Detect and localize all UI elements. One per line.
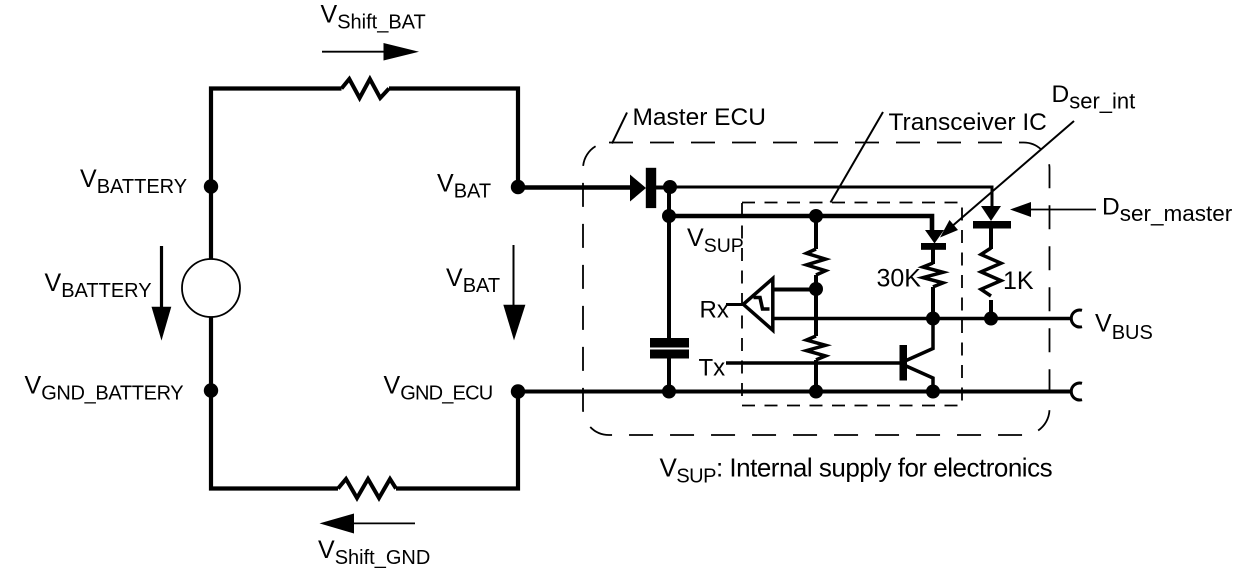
svg-text:Tx: Tx [699, 355, 726, 382]
battery source circle [182, 259, 240, 317]
wire capacitor to ground rail [667, 358, 671, 392]
top rail to D_ser_master [670, 187, 992, 207]
connector arc V_BUS [1071, 310, 1082, 327]
bus line [773, 317, 1072, 321]
node 1K bus [984, 312, 998, 326]
hysteresis symbol [754, 298, 770, 310]
VSUP rail [669, 216, 932, 231]
diode D1 cathode bar [646, 168, 656, 208]
capacitor C1 plates [650, 338, 689, 348]
svg-text:VSUP: VSUP [687, 224, 744, 257]
transistor Q1 collector [905, 319, 933, 362]
D_ser_int diode triangle [925, 230, 944, 244]
D_ser_int leader line [950, 121, 1074, 228]
resistor divider upper [807, 249, 826, 275]
Transceiver IC leader line [831, 112, 884, 203]
svg-text:Transceiver IC: Transceiver IC [889, 109, 1047, 136]
svg-text:VBAT: VBAT [446, 264, 500, 297]
node divider bottom on ground [809, 385, 823, 399]
wire node down to VSUP node [667, 187, 671, 216]
node V_BATTERY [204, 179, 218, 193]
svg-text:VShift_GND: VShift_GND [318, 536, 430, 569]
node 30K bus [926, 312, 940, 326]
D_ser_master leader arrowhead [1010, 202, 1031, 217]
ground rail [518, 390, 1072, 394]
comparator Rx triangle [743, 279, 773, 331]
svg-text:VGND_BATTERY: VGND_BATTERY [25, 372, 184, 405]
D_ser_int leader arrowhead [940, 220, 958, 238]
resistor top (shift_bat) [342, 79, 389, 98]
arrow V_Shift_BAT [322, 51, 386, 53]
Transceiver IC dashed box [742, 203, 962, 406]
node V_GND_ECU [511, 384, 525, 398]
svg-text:VBUS: VBUS [1095, 310, 1153, 345]
wire D_ser_master to 1K [989, 228, 993, 249]
wire V_BAT to diode [518, 185, 631, 189]
arrow V_Shift_GND [352, 522, 415, 524]
Rx stub wire [726, 303, 744, 306]
resistor divider lower [807, 336, 826, 360]
resistor 1K [981, 248, 1001, 296]
wire top left loop [211, 89, 518, 489]
node after diode [663, 180, 677, 194]
resistor bottom (shift_gnd) [338, 479, 396, 498]
D_ser_master cathode bar [973, 221, 1011, 229]
D_ser_master leader line [1030, 209, 1096, 211]
svg-text:VShift_BAT: VShift_BAT [321, 1, 426, 34]
svg-text:VBATTERY: VBATTERY [45, 269, 152, 302]
D_ser_int cathode bar [921, 243, 946, 250]
divider branch vertical [814, 216, 818, 392]
node divider top [809, 209, 823, 223]
svg-text:VSUP: Internal supply for elec: VSUP: Internal supply for electronics [660, 452, 1053, 487]
arrow V_BATTERY down [160, 246, 163, 310]
node V_BAT [511, 180, 525, 194]
wire D_ser_int to 30K [931, 249, 935, 264]
node V_GND_BATTERY [204, 383, 218, 397]
svg-text:VBATTERY: VBATTERY [80, 165, 187, 198]
transistor Q1 emitter [905, 366, 933, 393]
resistor 30K [923, 263, 943, 287]
D_ser_master diode triangle [981, 206, 1001, 221]
node cap bottom on ground [662, 385, 676, 399]
wire comparator ref input [772, 288, 816, 292]
svg-text:1K: 1K [1003, 267, 1034, 295]
wire VSUP node down to capacitor [667, 216, 671, 339]
transistor Q1 base bar [900, 345, 908, 381]
Master ECU dashed box [583, 143, 1050, 436]
svg-text:Dser_master: Dser_master [1102, 194, 1233, 227]
svg-text:Dser_int: Dser_int [1052, 81, 1136, 114]
Master ECU label slash [612, 113, 627, 144]
Tx line [726, 361, 900, 365]
svg-text:VGND_ECU: VGND_ECU [384, 372, 493, 405]
node emitter on ground [926, 385, 940, 399]
svg-text:Rx: Rx [700, 297, 729, 324]
diode D1 anode triangle [630, 175, 646, 202]
svg-text:VBAT: VBAT [437, 170, 491, 203]
svg-text:Master ECU: Master ECU [633, 104, 766, 131]
node VSUP left [662, 209, 676, 223]
connector arc ground [1071, 383, 1082, 400]
arrow V_BAT down [513, 245, 515, 307]
node divider mid [809, 282, 823, 296]
wire diode to node [656, 186, 672, 190]
wire 1K to bus [989, 300, 993, 319]
svg-text:30K: 30K [877, 265, 922, 293]
wire 30K to bus [931, 287, 935, 319]
